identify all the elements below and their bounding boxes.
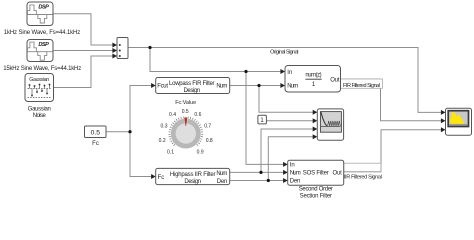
svg-text:0.9: 0.9 [197, 149, 204, 155]
svg-text:1kHz Sine Wave, Fs=44.1kHz: 1kHz Sine Wave, Fs=44.1kHz [4, 30, 81, 36]
svg-text:Highpass IIR Filter: Highpass IIR Filter [170, 172, 216, 178]
svg-text:Num: Num [216, 171, 227, 177]
svg-text:DSP: DSP [38, 42, 49, 48]
svg-text:FIR Filtered Signal: FIR Filtered Signal [343, 83, 380, 89]
svg-text:0.7: 0.7 [204, 123, 211, 129]
svg-text:In: In [287, 70, 292, 76]
svg-text:0.2: 0.2 [159, 138, 166, 144]
svg-text:num(z): num(z) [305, 72, 321, 78]
svg-text:Fc: Fc [92, 141, 99, 147]
svg-text:Design: Design [184, 179, 201, 185]
svg-text:Section Filter: Section Filter [300, 193, 332, 199]
svg-text:0.5: 0.5 [91, 129, 101, 136]
svg-text:Fc: Fc [158, 175, 165, 181]
svg-text:Out: Out [333, 171, 343, 177]
svg-text:IIR Filtered Signal: IIR Filtered Signal [344, 174, 382, 180]
svg-text:Second Order: Second Order [299, 186, 333, 192]
svg-text:Out: Out [330, 77, 340, 83]
svg-text:Den: Den [290, 179, 301, 185]
svg-text:Num: Num [287, 84, 298, 90]
svg-text:Lowpass FIR Filter: Lowpass FIR Filter [169, 81, 215, 87]
svg-text:0.1: 0.1 [167, 149, 174, 155]
svg-text:0.3: 0.3 [161, 123, 168, 129]
svg-text:Design: Design [184, 88, 201, 94]
svg-text:0.4: 0.4 [169, 112, 176, 118]
svg-text:Fc:Value: Fc:Value [175, 100, 196, 106]
svg-text:15kHz Sine Wave, Fs=44.1kHz: 15kHz Sine Wave, Fs=44.1kHz [3, 66, 81, 72]
svg-text:SOS Filter: SOS Filter [303, 171, 329, 177]
svg-text:0.8: 0.8 [206, 138, 213, 144]
svg-text:Num: Num [290, 171, 301, 177]
svg-text:0.5: 0.5 [182, 109, 189, 115]
svg-text:Num: Num [216, 84, 227, 90]
svg-text:Noise: Noise [33, 113, 47, 119]
svg-text:Gaussian: Gaussian [28, 106, 51, 112]
svg-text:In: In [290, 163, 295, 169]
svg-text:Den: Den [217, 179, 228, 185]
svg-text:Original Signal: Original Signal [270, 49, 299, 55]
svg-text:Fcut: Fcut [157, 84, 168, 90]
svg-text:Gaussian: Gaussian [29, 77, 49, 83]
svg-text:DSP: DSP [38, 5, 49, 11]
svg-text:0.6: 0.6 [194, 112, 201, 118]
